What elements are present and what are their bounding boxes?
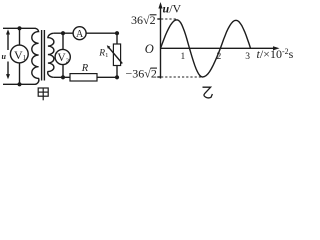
node junction bottom-left (17, 82, 21, 86)
svg-text:O: O (145, 42, 154, 56)
resistor R body (70, 74, 97, 81)
node junction top-right (115, 31, 119, 35)
svg-text:2: 2 (217, 52, 222, 62)
wire primary top (3, 27, 36, 29)
wire V1 branch lower (19, 63, 21, 84)
label yi (graph) (203, 87, 213, 98)
svg-text:R1: R1 (98, 49, 108, 60)
node junction top-left (17, 26, 21, 30)
wire primary bottom (3, 83, 36, 85)
svg-text:3: 3 (245, 52, 250, 62)
source arrow up (AC input) (6, 29, 10, 50)
node junction V2 top (61, 31, 65, 35)
wire secondary top right (86, 32, 117, 34)
dashed amplitude line bottom (161, 76, 203, 78)
svg-text:1: 1 (181, 52, 186, 62)
svg-text:t/×10-2s: t/×10-2s (257, 47, 294, 61)
wire V2 branch upper (62, 33, 64, 49)
transformer core line 2 (43, 30, 45, 81)
wire V1 branch upper (19, 28, 21, 45)
sine curve u(t) (161, 20, 251, 77)
svg-text:A: A (76, 29, 84, 40)
dashed amplitude line top (161, 18, 176, 20)
voltmeter V1 (10, 45, 28, 63)
svg-text:u/V: u/V (163, 2, 182, 16)
label jia (circuit) (38, 88, 48, 100)
voltmeter V2 (55, 49, 70, 64)
resistor R1 body (113, 44, 120, 66)
svg-text:R: R (81, 63, 89, 74)
wire right edge upper (116, 33, 118, 44)
graph y-axis (158, 2, 162, 79)
overbar of bottom radical (151, 67, 158, 69)
resistor R1 arrow (107, 45, 123, 63)
wire secondary bottom right (97, 76, 117, 78)
label 36root2 (131, 13, 156, 27)
wire secondary bottom left (54, 76, 70, 78)
wire right edge lower (116, 66, 118, 78)
source arrow down (AC input) (6, 62, 10, 80)
wire V2 branch lower (62, 65, 64, 78)
tick +36root2 (157, 18, 160, 20)
tick -36root2 (157, 76, 160, 78)
svg-text:V1: V1 (14, 48, 27, 62)
node junction bottom-right (115, 75, 119, 79)
transformer primary winding (32, 28, 39, 84)
ammeter A (73, 27, 86, 40)
label -36root2 (126, 66, 157, 80)
transformer secondary winding (48, 33, 54, 77)
node junction V2 bottom (61, 75, 65, 79)
wire secondary top left (54, 32, 73, 34)
transformer core line 1 (41, 30, 43, 81)
graph x-axis (161, 46, 280, 50)
svg-text:u: u (2, 52, 7, 61)
overbar of top radical (150, 14, 157, 16)
svg-text:V2: V2 (57, 52, 69, 64)
